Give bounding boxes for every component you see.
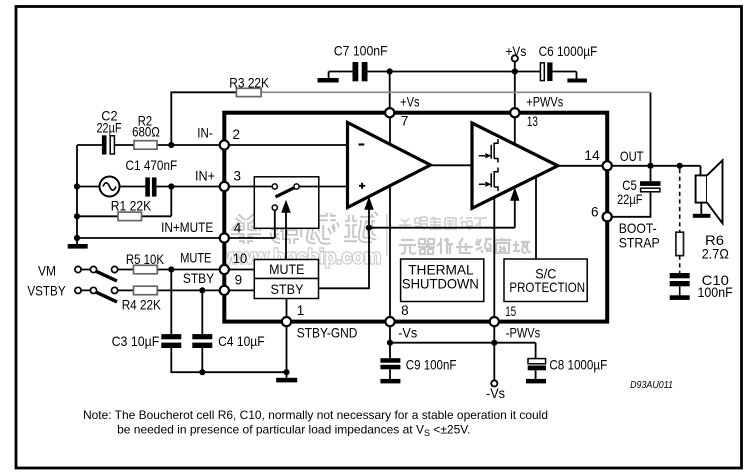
svg-text:8: 8 xyxy=(401,303,409,318)
svg-text:-Vs: -Vs xyxy=(486,385,505,401)
svg-text:6: 6 xyxy=(591,205,599,220)
svg-text:C9 100nF: C9 100nF xyxy=(406,356,457,372)
svg-text:3: 3 xyxy=(234,169,242,184)
svg-text:C1 470nF: C1 470nF xyxy=(126,157,178,173)
svg-text:22µF: 22µF xyxy=(617,191,643,207)
svg-text:Note: The Boucherot cell R6, C: Note: The Boucherot cell R6, C10, normal… xyxy=(83,408,548,422)
svg-text:IN+MUTE: IN+MUTE xyxy=(161,219,213,235)
svg-text:VM: VM xyxy=(38,263,56,279)
svg-text:1: 1 xyxy=(297,303,305,318)
svg-text:2.7Ω: 2.7Ω xyxy=(702,246,729,262)
svg-text:2: 2 xyxy=(233,127,241,142)
svg-text:STBY: STBY xyxy=(183,270,215,286)
svg-text:be needed in presence of parti: be needed in presence of particular load… xyxy=(117,422,470,438)
svg-text:-PWVs: -PWVs xyxy=(506,324,540,340)
svg-text:OUT: OUT xyxy=(620,148,644,164)
svg-text:R5 10K: R5 10K xyxy=(126,251,165,267)
svg-text:R3 22K: R3 22K xyxy=(229,75,269,91)
svg-text:13: 13 xyxy=(527,114,538,129)
svg-text:680Ω: 680Ω xyxy=(132,123,160,139)
svg-text:14: 14 xyxy=(584,148,600,163)
svg-text:MUTE: MUTE xyxy=(269,261,304,277)
svg-text:STBY: STBY xyxy=(271,281,305,297)
svg-text:IN-: IN- xyxy=(197,125,213,141)
svg-text:STRAP: STRAP xyxy=(619,234,660,250)
svg-text:+Vs: +Vs xyxy=(506,43,527,59)
svg-text:7: 7 xyxy=(401,114,409,129)
svg-text:9: 9 xyxy=(235,273,243,288)
svg-text:R1 22K: R1 22K xyxy=(111,197,152,213)
svg-text:C4 10µF: C4 10µF xyxy=(218,333,265,349)
svg-text:PROTECTION: PROTECTION xyxy=(509,279,585,295)
svg-text:C6 1000µF: C6 1000µF xyxy=(539,43,598,59)
svg-text:SHUTDOWN: SHUTDOWN xyxy=(402,276,479,292)
svg-text:IN+: IN+ xyxy=(195,168,215,184)
svg-text:10: 10 xyxy=(233,251,247,266)
svg-text:C3 10µF: C3 10µF xyxy=(112,333,160,349)
svg-text:R4 22K: R4 22K xyxy=(122,296,162,312)
svg-text:100nF: 100nF xyxy=(698,284,733,300)
svg-text:+PWVs: +PWVs xyxy=(526,94,563,110)
svg-text:MUTE: MUTE xyxy=(180,250,211,266)
svg-text:VSTBY: VSTBY xyxy=(27,283,66,299)
svg-text:4: 4 xyxy=(234,221,242,236)
svg-text:STBY-GND: STBY-GND xyxy=(297,325,358,341)
svg-text:C7 100nF: C7 100nF xyxy=(334,42,388,58)
svg-text:C8 1000µF: C8 1000µF xyxy=(549,356,607,372)
svg-text:-Vs: -Vs xyxy=(398,324,417,340)
svg-text:+Vs: +Vs xyxy=(400,94,419,110)
svg-text:22µF: 22µF xyxy=(97,120,122,136)
svg-text:15: 15 xyxy=(505,304,516,319)
svg-text:D93AU011: D93AU011 xyxy=(630,379,673,391)
